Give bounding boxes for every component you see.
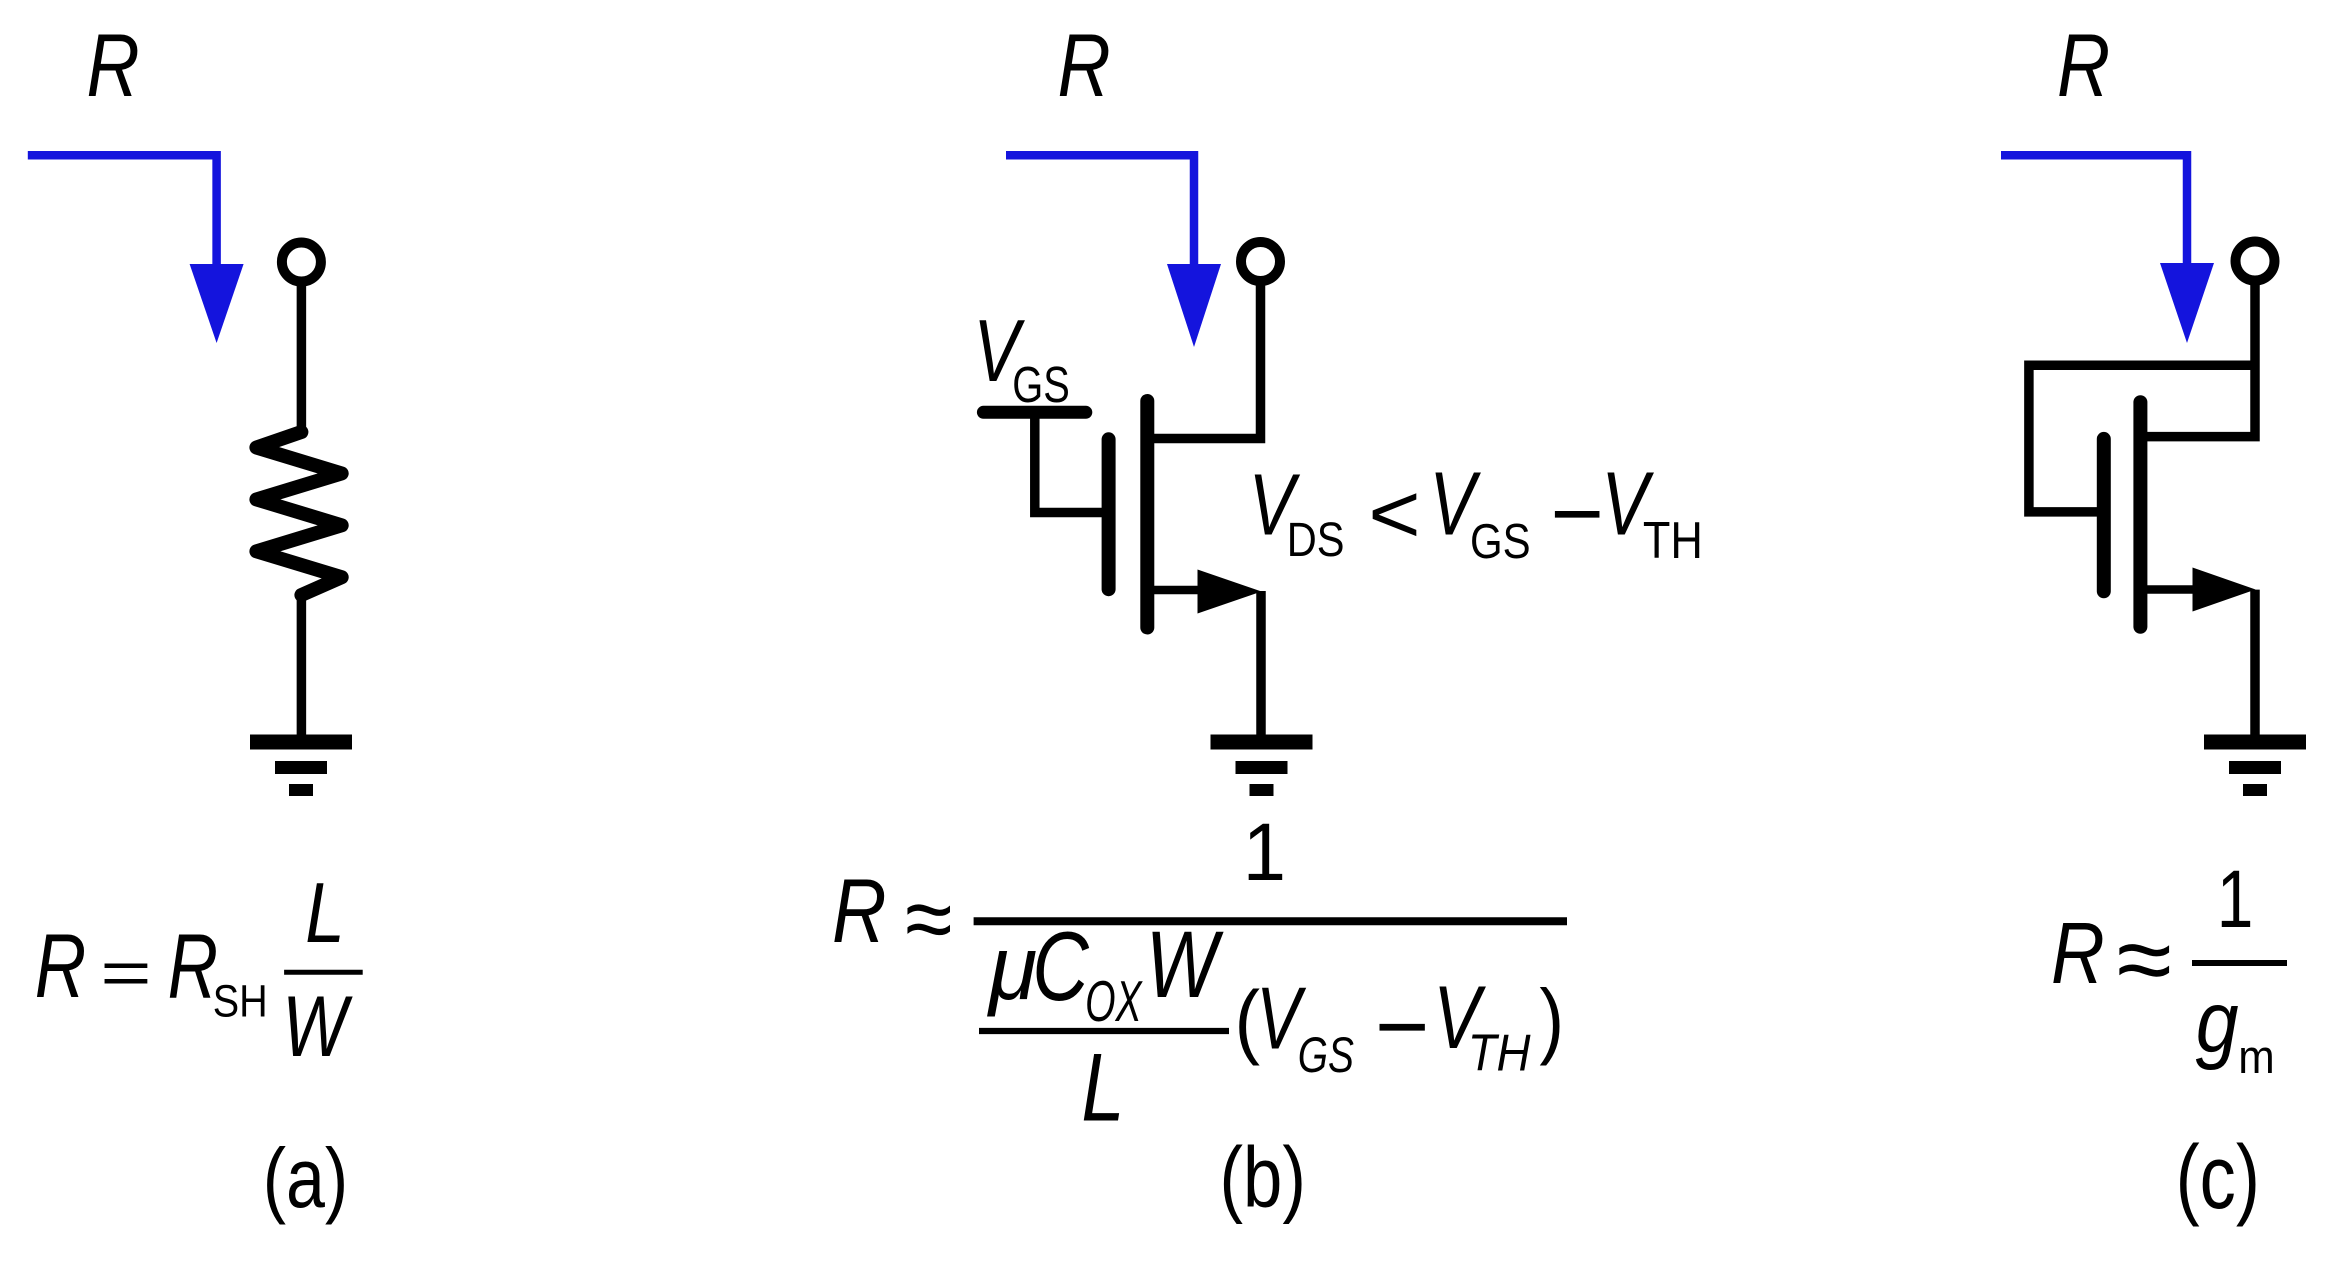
wire source (b) (1256, 591, 1266, 742)
svg-text:−: − (1375, 973, 1430, 1078)
transistor M2 channel bar (c) (2133, 402, 2147, 627)
svg-text:<: < (1368, 467, 1420, 561)
svg-text:W: W (282, 978, 353, 1074)
svg-text:1: 1 (1243, 806, 1286, 897)
transistor M1 channel bar (b) (1140, 401, 1154, 628)
ground (a) (250, 742, 352, 790)
svg-text:(c): (c) (2176, 1128, 2260, 1228)
svg-text:W: W (1146, 912, 1224, 1018)
svg-text:μ: μ (987, 918, 1037, 1020)
transistor M2 gate bar (c) (2097, 439, 2111, 591)
wire gate bias (b) (1035, 416, 1106, 513)
svg-text:GS: GS (1470, 514, 1531, 569)
transistor M1 gate bar (b) (1102, 439, 1116, 589)
svg-text:≈: ≈ (905, 867, 952, 971)
svg-text:OX: OX (1085, 971, 1143, 1034)
terminal node (c) (2236, 242, 2275, 281)
wire current arrow R (c) (2001, 155, 2187, 265)
svg-text:1: 1 (2217, 853, 2254, 944)
svg-text:(a): (a) (263, 1132, 349, 1225)
svg-text:C: C (1032, 911, 1089, 1020)
svg-text:DS: DS (1287, 512, 1345, 567)
svg-text:(b): (b) (1220, 1129, 1306, 1225)
svg-text:R: R (168, 916, 218, 1019)
svg-text:m: m (2238, 1030, 2274, 1083)
wire current arrow R (b) (1006, 155, 1194, 266)
resistor R (a) (256, 432, 341, 595)
wire drain (b) (1152, 284, 1261, 439)
terminal node (a) (282, 243, 321, 282)
svg-text:): ) (1539, 972, 1564, 1067)
svg-text:−: − (1550, 463, 1604, 565)
svg-text:R: R (2051, 906, 2105, 1003)
wire source (c) (2250, 590, 2260, 742)
svg-text:TH: TH (1643, 512, 1703, 570)
svg-text:SH: SH (213, 976, 268, 1027)
ground (c) (2204, 742, 2306, 790)
bias source VGS bar (b) (983, 406, 1085, 419)
svg-text:R: R (87, 17, 140, 116)
svg-text:GS: GS (1298, 1026, 1354, 1083)
svg-text:R: R (832, 859, 886, 961)
svg-text:L: L (1081, 1034, 1124, 1142)
transistor M1 source arrow (b) (1150, 586, 1207, 595)
svg-text:g: g (2196, 975, 2239, 1071)
wire top (a) (297, 284, 307, 432)
svg-text:GS: GS (1012, 356, 1070, 413)
svg-text:L: L (305, 865, 344, 961)
ground (b) (1211, 742, 1313, 790)
transistor M2 source arrow (c) (2147, 585, 2202, 594)
svg-text:R: R (35, 916, 86, 1017)
wire current arrow R (a) (28, 155, 217, 266)
svg-text:TH: TH (1468, 1025, 1531, 1082)
wire drain (c) (2145, 283, 2255, 437)
svg-text:≈: ≈ (2117, 905, 2172, 1015)
wire gate to drain diode connection (c) (2029, 365, 2255, 512)
wire bottom (a) (297, 595, 307, 742)
terminal node (b) (1241, 242, 1280, 281)
svg-text:R: R (2057, 17, 2110, 116)
svg-text:=: = (100, 939, 151, 1008)
svg-text:R: R (1058, 17, 1111, 116)
